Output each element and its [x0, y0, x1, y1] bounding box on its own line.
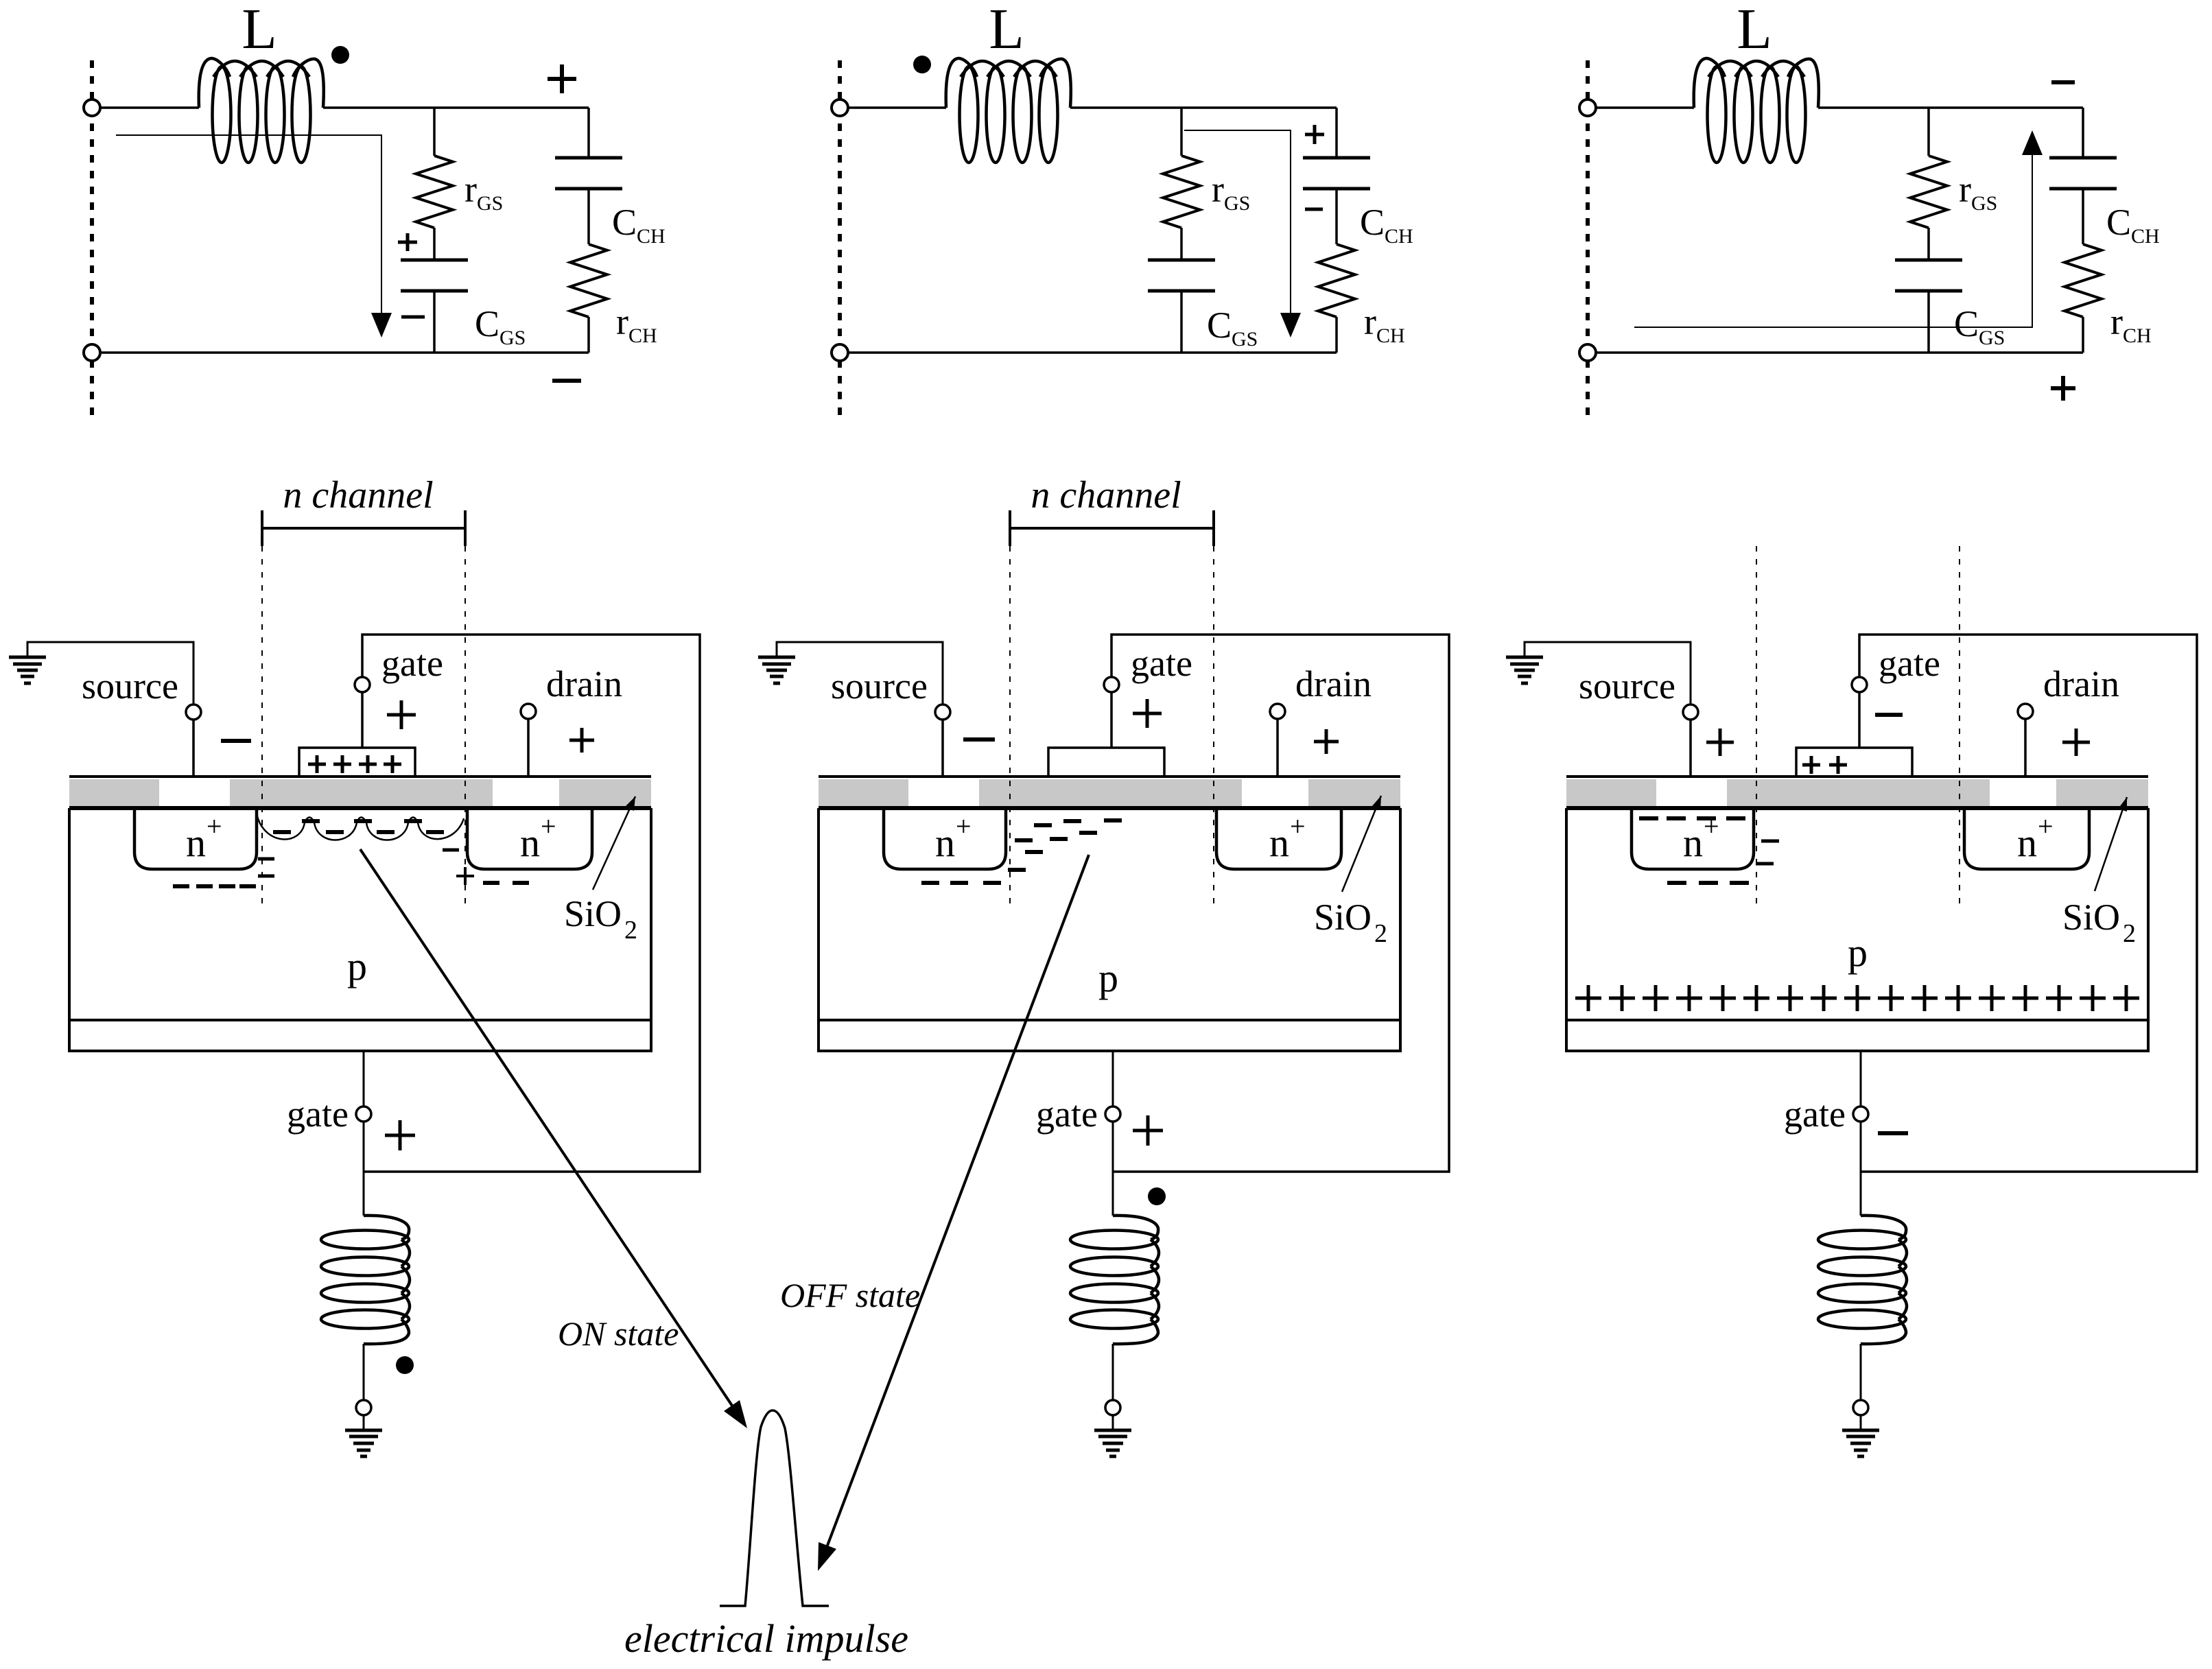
device 1: channel electron dashes lower [273, 830, 291, 834]
device 3: bottom ground terminal [1853, 1400, 1868, 1415]
device 1: source terminal minus sign [221, 739, 251, 743]
device 3: body outline p region [1566, 808, 2148, 1020]
device 2: wire coil to ground [1112, 1344, 1114, 1400]
device 2: left n+ well [884, 808, 1006, 869]
circuit 1: capacitor C_CH [555, 156, 622, 160]
device 3: wire coil to ground [1860, 1344, 1862, 1400]
circuit 3: current arrow wire [1634, 154, 2032, 327]
device 3: gate terminal [1852, 677, 1867, 692]
device 3: bottom gate minus sign [1878, 1131, 1908, 1135]
device 1: bottom substrate strip [69, 1020, 651, 1051]
svg-text:GS: GS [477, 192, 503, 215]
device 1: inversion channel wavy line [257, 816, 464, 840]
device 1: right n+ well [467, 808, 592, 869]
circuit 1: inductor L [213, 67, 231, 163]
device 1: plus below right well corner [456, 867, 474, 885]
svg-text:GS: GS [1971, 192, 1997, 215]
device 3: hole accumulation plus row [1575, 985, 1601, 1011]
svg-text:L: L [242, 0, 276, 61]
device 1: silicon surface line [69, 806, 651, 810]
device 2: acceptor dashes under left well [921, 881, 939, 885]
circuit 2: wire r_GS to C_GS [1180, 228, 1183, 260]
device 2: gate loop (top/right/bottom) [1111, 635, 1449, 1172]
device 3: drain contact stem [2024, 719, 2027, 777]
circuit 2: current arrowhead [1280, 313, 1301, 338]
circuit 2: minus below C_CH [1305, 208, 1323, 211]
device 3: channel dashed line left [1756, 546, 1757, 909]
circuit 1: minus at C_GS bottom [401, 316, 425, 319]
svg-text:p: p [1098, 956, 1118, 1000]
device 2: channel dashed line left [1009, 546, 1011, 909]
circuit 1: bottom terminal [84, 344, 100, 361]
svg-text:L: L [989, 0, 1024, 61]
device 1: gate loop (top/right/bottom) [362, 635, 700, 1172]
device 3: source ground symbol [1506, 656, 1543, 659]
circuit 3: plus at bottom [2051, 376, 2075, 401]
svg-text:n: n [1269, 820, 1289, 865]
circuit 2: current arrow wire [1184, 130, 1291, 314]
device 1: wire gate to coil [363, 1122, 365, 1216]
svg-text:2: 2 [624, 916, 637, 945]
device 1: gate terminal plus sign [387, 700, 416, 729]
device 3: drain terminal [2018, 704, 2033, 719]
device 2: wire gate to coil [1112, 1122, 1114, 1216]
device 2: n channel dimension bracket [1010, 510, 1214, 546]
device 1: drain contact stem [527, 719, 530, 777]
svg-text:r: r [1364, 301, 1376, 342]
svg-text:C: C [1360, 202, 1385, 243]
svg-text:GS: GS [1224, 192, 1250, 215]
device 3: depletion dashes inside left well [1639, 816, 1658, 820]
svg-text:CH: CH [2123, 324, 2152, 347]
svg-text:gate: gate [287, 1093, 349, 1135]
device 1: coupling dot near coil [396, 1356, 414, 1374]
device 3: gate stem and top loop wire [1858, 692, 1861, 748]
device 2: metallization SiO2 layer (gray) [819, 779, 1400, 806]
svg-text:n: n [2017, 820, 2037, 865]
circuit 1: wire r_GS to C_GS [433, 228, 436, 260]
circuit 1: plus at C_GS top [398, 233, 417, 251]
device 3: gate electrode [1796, 748, 1912, 777]
circuit 1: bottom wire [100, 351, 589, 354]
device 3: source contact stem [1689, 720, 1692, 777]
svg-text:r: r [2110, 301, 2123, 342]
device 2: source terminal [935, 705, 950, 720]
circuit 3: resistor r_CH [2064, 244, 2102, 317]
device 3: minus pair right of left well [1761, 840, 1779, 843]
device 1: n channel dimension bracket [262, 510, 465, 546]
svg-text:SiO: SiO [1314, 897, 1372, 938]
device 2: source wire from ground [777, 642, 943, 705]
device 3: gate terminal minus sign [1875, 713, 1903, 717]
svg-text:n: n [520, 820, 540, 865]
device 1: body outline p region [69, 808, 651, 1020]
circuit 3: wire node to r_GS [1927, 108, 1930, 156]
device 1: SiO2 pointer arrow [593, 796, 635, 890]
device 3: wire gate to coil [1860, 1122, 1862, 1216]
svg-text:n channel: n channel [283, 474, 433, 517]
svg-text:n: n [935, 820, 955, 865]
circuit 3: minus at top [2051, 80, 2075, 84]
device 2: OFF state arrow [824, 855, 1089, 1554]
circuit 1: capacitor C_GS [401, 259, 468, 262]
svg-text:2: 2 [1374, 919, 1387, 948]
device 2: gate stem and top loop wire [1110, 692, 1113, 748]
svg-text:GS: GS [1232, 328, 1258, 351]
svg-text:source: source [1579, 665, 1675, 707]
device 1: source terminal [186, 705, 201, 720]
device 1: source wire from ground [27, 642, 193, 705]
device 2: bottom substrate strip [819, 1020, 1400, 1051]
device 1: wire coil to ground [363, 1344, 365, 1400]
device 1: drain terminal plus sign [569, 728, 594, 753]
svg-text:+: + [541, 811, 556, 842]
device 2: gate terminal [1104, 677, 1119, 692]
circuit 3: capacitor C_GS [1895, 259, 1962, 262]
svg-text:CH: CH [637, 225, 666, 248]
circuit 2: wire inductor to C_CH branch [1070, 106, 1337, 109]
device 3: channel dashed line right [1959, 546, 1960, 909]
svg-text:drain: drain [546, 663, 622, 705]
svg-text:+: + [956, 811, 972, 842]
svg-text:C: C [2106, 202, 2131, 243]
svg-text:p: p [1848, 930, 1868, 975]
device 2: bottom gate terminal [1105, 1106, 1120, 1122]
svg-text:CH: CH [1385, 225, 1413, 248]
circuit 2: plus at C_CH top [1305, 125, 1324, 144]
svg-text:source: source [831, 665, 928, 707]
circuit 3: dashed boundary line [1586, 60, 1590, 421]
device 3: gate electrode plus charges [1802, 756, 1820, 774]
svg-text:C: C [1207, 305, 1232, 346]
device 1: drain terminal [521, 704, 536, 719]
svg-text:gate: gate [1784, 1093, 1846, 1135]
svg-text:GS: GS [1979, 327, 2005, 349]
circuit 1: resistor r_CH [570, 244, 607, 317]
circuit 3: top wire [1596, 106, 1694, 109]
device 2: drain terminal plus sign [1314, 729, 1339, 754]
device 1: dashes under right well [483, 881, 499, 885]
svg-text:L: L [1737, 0, 1772, 61]
circuit 1: wire node to r_GS [433, 108, 436, 156]
electrical impulse waveform [720, 1410, 829, 1606]
device 2: channel dashed line right [1213, 546, 1214, 909]
svg-text:r: r [1959, 169, 1971, 210]
device 1: ON state arrow [360, 849, 738, 1414]
device 3: SiO2 pointer arrow [2095, 797, 2127, 891]
device 1: bottom gate plus sign [385, 1120, 415, 1150]
circuit 2: bottom terminal [832, 344, 848, 361]
svg-text:SiO: SiO [2062, 897, 2120, 938]
svg-text:GS: GS [499, 327, 526, 349]
device 2: source ground symbol [758, 656, 795, 659]
svg-text:n: n [1683, 820, 1703, 865]
circuit 1: wire inductor to C_CH branch [323, 106, 589, 109]
circuit 3: resistor r_GS [1910, 156, 1947, 228]
svg-text:gate: gate [1036, 1093, 1098, 1135]
svg-text:+: + [207, 811, 222, 842]
device 1: channel end minus [443, 849, 459, 852]
device 3: silicon surface line [1566, 806, 2148, 810]
svg-text:+: + [1290, 811, 1306, 842]
svg-text:CH: CH [2131, 225, 2160, 248]
circuit 2: wire C_CH branch down [1335, 108, 1338, 158]
circuit 1: minus at branch bottom [552, 379, 581, 383]
device 3: gate inductor coil [1818, 1231, 1906, 1249]
device 2: SiO2 pointer arrow [1342, 796, 1381, 892]
svg-text:gate: gate [1131, 643, 1192, 684]
svg-text:n: n [186, 820, 206, 865]
svg-text:drain: drain [1295, 663, 1372, 705]
device 1: bottom ground symbol [363, 1415, 365, 1430]
svg-text:CH: CH [628, 324, 657, 347]
circuit 2: capacitor C_CH [1303, 156, 1370, 160]
svg-text:C: C [1954, 303, 1979, 344]
circuit 1: current arrowhead [371, 313, 392, 338]
device 1: bottom gate stem [363, 1051, 365, 1106]
circuit 3: capacitor C_CH [2049, 156, 2117, 160]
svg-text:r: r [464, 169, 477, 210]
circuit 1: wire r_CH to bottom [587, 317, 590, 353]
device 1: channel dashed line right [464, 546, 466, 909]
device 3: drain terminal plus sign [2062, 729, 2090, 756]
circuit 1: top terminal [84, 99, 100, 116]
device 2: bottom ground terminal [1105, 1400, 1120, 1415]
device 1: gate stem and top loop wire [361, 692, 364, 748]
circuit 3: top terminal [1579, 99, 1596, 116]
circuit 3: wire r_CH to bottom [2082, 317, 2084, 353]
circuit 2: resistor r_CH [1318, 244, 1355, 317]
circuit 2: wire r_CH to bottom [1335, 317, 1338, 353]
svg-text:r: r [1212, 169, 1224, 210]
device 1: bottom ground terminal [356, 1400, 371, 1415]
device 1: bottom gate terminal [356, 1106, 371, 1122]
circuit 3: bottom wire [1596, 351, 2083, 354]
device 2: source contact stem [941, 720, 944, 777]
device 2: drain contact stem [1276, 719, 1279, 777]
device 3: metallization top line [1566, 775, 2148, 778]
device 3: source wire from ground [1525, 642, 1691, 705]
device 3: bottom gate stem [1860, 1051, 1862, 1106]
circuit 1: top wire [100, 106, 199, 109]
device 1: gate inductor coil [321, 1231, 409, 1249]
svg-text:+: + [1704, 811, 1719, 842]
device 2: drain terminal [1270, 704, 1285, 719]
svg-text:2: 2 [2123, 919, 2136, 948]
device 1: gate terminal [355, 677, 370, 692]
device 2: gate electrode [1048, 748, 1164, 777]
circuit 1: plus at C_CH branch top [548, 64, 576, 93]
device 2: gate inductor coil [1070, 1231, 1158, 1249]
circuit 2: resistor r_GS [1163, 156, 1200, 228]
svg-text:C: C [612, 202, 637, 243]
circuit 3: wire C_CH to r_CH [2082, 189, 2084, 244]
device 1: metallization top line [69, 775, 651, 778]
circuit 1: wire C_GS to bottom [433, 291, 436, 353]
svg-text:OFF state: OFF state [780, 1276, 920, 1314]
device 2: body outline p region [819, 808, 1400, 1020]
svg-text:C: C [475, 303, 499, 344]
circuit 2: top wire [848, 106, 946, 109]
circuit 3: wire C_GS to bottom [1927, 291, 1930, 353]
circuit 3: current arrowhead [2022, 130, 2043, 155]
device 1: gate electrode plus charges [308, 755, 326, 773]
device 2: bottom gate plus sign [1133, 1115, 1163, 1146]
device 3: bottom ground symbol [1860, 1415, 1862, 1430]
svg-text:+: + [2038, 811, 2054, 842]
device 3: source terminal plus sign [1706, 729, 1734, 756]
circuit 1: coupling dot [331, 46, 349, 64]
device 1: gate electrode [299, 748, 415, 777]
device 2: bottom ground symbol [1112, 1415, 1114, 1430]
circuit 1: wire C_CH to r_CH [587, 189, 590, 244]
circuit 2: inductor L [960, 67, 978, 163]
device 2: source terminal minus sign [963, 737, 995, 742]
svg-text:ON state: ON state [558, 1314, 679, 1353]
circuit 1: wire C_CH branch down [587, 108, 590, 158]
circuit 2: capacitor C_GS [1148, 259, 1215, 262]
device 3: bottom gate terminal [1853, 1106, 1868, 1122]
circuit 2: wire node to r_GS [1180, 108, 1183, 156]
device 1: minus pair at left well edge [258, 857, 274, 861]
device 3: metallization SiO2 layer (gray) [1566, 779, 2148, 806]
device 1: metallization SiO2 layer (gray) [69, 779, 651, 806]
device 2: coupling dot near coil [1148, 1187, 1166, 1205]
circuit 2: dashed boundary line [838, 60, 842, 421]
svg-text:drain: drain [2043, 663, 2119, 705]
circuit 2: wire C_GS to bottom [1180, 291, 1183, 353]
device 2: bottom gate stem [1112, 1051, 1114, 1106]
device 3: bottom substrate strip [1566, 1020, 2148, 1051]
circuit 2: top terminal [832, 99, 848, 116]
svg-text:gate: gate [1879, 643, 1940, 684]
circuit 1: resistor r_GS [416, 156, 453, 228]
svg-text:gate: gate [381, 643, 443, 684]
svg-text:n channel: n channel [1031, 474, 1181, 517]
circuit 2: coupling dot [913, 56, 931, 73]
device 1: left n+ well [134, 808, 257, 869]
circuit 3: bottom terminal [1579, 344, 1596, 361]
device 2: channel electron cloud dashes [1034, 823, 1052, 827]
circuit 2: wire C_CH to r_CH [1335, 189, 1338, 244]
circuit 3: wire r_GS to C_GS [1927, 228, 1930, 260]
svg-text:r: r [616, 301, 628, 342]
device 3: gate loop (top/right/bottom) [1859, 635, 2197, 1172]
circuit 1: current arrow wire [116, 135, 381, 314]
svg-text:source: source [82, 665, 178, 707]
device 3: right n+ well [1964, 808, 2089, 869]
device 1: acceptor dashes under left well [173, 884, 189, 888]
svg-text:SiO: SiO [564, 893, 622, 934]
device 1: source contact stem [192, 720, 195, 777]
svg-text:electrical impulse: electrical impulse [624, 1616, 908, 1661]
device 3: acceptor dashes under left well [1667, 881, 1686, 885]
device 2: right n+ well [1216, 808, 1341, 869]
circuit 1: dashed boundary line [90, 60, 94, 421]
device 2: gate terminal plus sign [1133, 699, 1162, 728]
device 1: source ground symbol [9, 656, 46, 659]
circuit 3: wire inductor to C_CH branch [1818, 106, 2083, 109]
circuit 3: inductor L [1708, 67, 1726, 163]
circuit 2: bottom wire [848, 351, 1337, 354]
device 1: channel dashed line left [261, 546, 263, 909]
device 2: metallization top line [819, 775, 1400, 778]
device 1: channel electron dashes upper [302, 819, 320, 823]
device 3: source terminal [1683, 705, 1698, 720]
circuit 3: wire C_CH branch down [2082, 108, 2084, 158]
svg-text:p: p [347, 944, 367, 989]
device 3: left n+ well [1632, 808, 1754, 869]
device 2: silicon surface line [819, 806, 1400, 810]
svg-text:CH: CH [1376, 324, 1405, 347]
